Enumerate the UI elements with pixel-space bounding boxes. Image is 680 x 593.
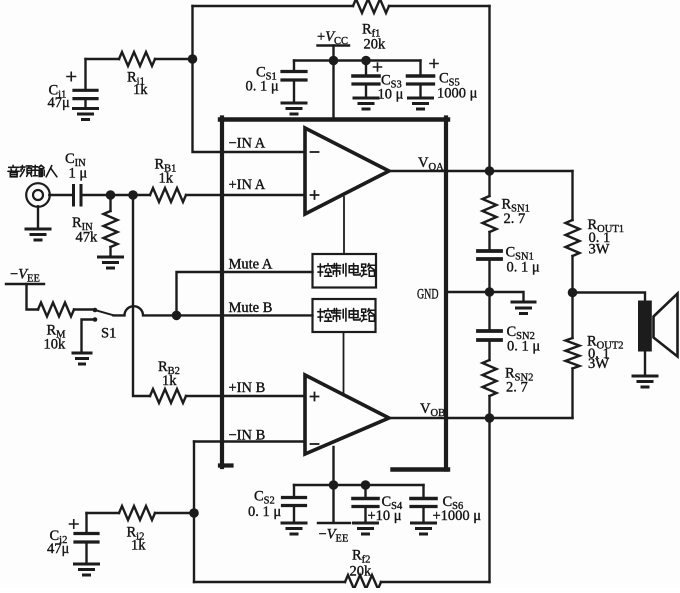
op-amp B plus sign [311, 393, 319, 401]
wire supply rail top [294, 59, 421, 61]
switch S1 contact lower [93, 317, 98, 322]
svg-text:0. 1 μ: 0. 1 μ [507, 260, 540, 276]
node junction CS4 [361, 480, 371, 490]
wire connector to ground [37, 206, 39, 228]
wire speaker to ground [644, 352, 646, 376]
svg-text:−IN B: −IN B [229, 428, 266, 444]
resistor Ri1 [119, 52, 155, 66]
ground CS6 [412, 523, 436, 534]
wire right vertical top (Rf1 to VOA) [488, 6, 490, 171]
node junction mute [172, 311, 182, 321]
capacitor CIN [74, 186, 82, 206]
svg-text:20k: 20k [364, 37, 387, 53]
svg-text:3W: 3W [588, 356, 609, 372]
svg-text:+IN B: +IN B [229, 380, 266, 396]
control box B [313, 299, 376, 332]
ground speaker [633, 376, 657, 387]
svg-text:Mute B: Mute B [229, 300, 273, 316]
svg-text:−VEE: −VEE [319, 527, 349, 545]
svg-text:+10 μ: +10 μ [368, 508, 402, 524]
speaker driver [638, 301, 652, 352]
capacitor CSN1 [478, 251, 501, 259]
wire node to ROUT2 [571, 293, 573, 339]
svg-text:S1: S1 [101, 326, 116, 342]
IC box bottom partial edge [393, 467, 449, 471]
wire RM to switch [74, 308, 93, 310]
node junction mute branch [128, 190, 138, 200]
node junction GND [485, 287, 495, 297]
ground S1 [73, 353, 91, 364]
svg-text:2. 7: 2. 7 [504, 211, 526, 227]
node junction VEE [329, 480, 339, 490]
switch S1 contact upper [93, 308, 98, 313]
resistor Ri2 [119, 506, 155, 520]
node junction CS3 [361, 56, 371, 66]
svg-text:+VCC: +VCC [317, 29, 348, 47]
node junction Ri2 [189, 508, 199, 518]
node junction Ri1 [188, 54, 198, 64]
wire top feedback A left segment [193, 5, 354, 7]
svg-text:10k: 10k [44, 337, 67, 353]
svg-text:47μ: 47μ [47, 541, 70, 557]
capacitor CS2 [293, 485, 295, 497]
wire Ri1 to junction [86, 58, 193, 60]
wire Ri2 [87, 512, 195, 514]
wire top feedback A right segment [389, 5, 490, 7]
label control circuit text A [318, 263, 375, 276]
ground CS1 [282, 103, 306, 114]
wire ROUT2 to VOB [571, 369, 573, 419]
op-amp A plus sign [311, 191, 319, 199]
switch S1 lever [96, 310, 114, 315]
wire right vertical bottom (VOB to Rf2) [488, 418, 490, 582]
power -VEE stem bottom [332, 485, 334, 523]
wire switch lower contact to ground [82, 320, 96, 353]
ground CS3 [354, 98, 378, 109]
capacitor CS6 polarized [422, 485, 424, 498]
wire supply rail bottom [294, 484, 424, 486]
wire mute A branch [177, 272, 313, 315]
wire +VCC stem to IC [332, 46, 334, 118]
wire ROUT1 to node [571, 256, 573, 293]
svg-text:1 μ: 1 μ [69, 166, 88, 182]
wire input branch vertical to RB2 [133, 195, 150, 396]
resistor ROUT2 [566, 338, 580, 369]
IC box top edge [220, 117, 448, 121]
resistor ROUT1 [566, 220, 580, 256]
svg-text:10 μ: 10 μ [378, 87, 404, 103]
ground Ci1 [74, 109, 98, 120]
resistor Rf1 [353, 0, 389, 13]
capacitor CS4 polarized [364, 485, 366, 498]
wire opamp B VEE stem [332, 447, 334, 485]
wire opamp A to control box A [343, 197, 345, 254]
node junction VOB [485, 413, 495, 423]
node junction RIN [106, 190, 116, 200]
wire -VEE to RM [27, 284, 39, 310]
wire GND to CSN2 [488, 292, 490, 329]
wire GND pin [446, 292, 524, 302]
node junction VCC [329, 56, 339, 66]
op-amp B minus sign [311, 443, 319, 445]
op-amp A minus sign [311, 151, 319, 153]
op-amp U1A [305, 128, 389, 214]
op-amp U1B [305, 375, 389, 454]
power -VEE bar bottom [318, 522, 350, 524]
input connector outer ring [26, 183, 50, 207]
IC box left edge [220, 118, 224, 468]
svg-text:−VEE: −VEE [10, 267, 40, 285]
wire mute with hop arc [114, 306, 313, 315]
label control circuit text B [318, 308, 375, 321]
wire left vertical to -IN A [193, 6, 306, 152]
node junction VOA [485, 166, 495, 176]
svg-text:0. 1 μ: 0. 1 μ [507, 339, 540, 355]
resistor RSN1 [483, 196, 497, 232]
ground CS4 [354, 523, 378, 534]
ground input connector [26, 229, 50, 240]
svg-text:−IN A: −IN A [229, 136, 266, 152]
capacitor CSN2 [478, 331, 501, 340]
IC box right edge [444, 118, 448, 470]
wire VOA junction to RSN1 [488, 171, 490, 196]
control box A [313, 254, 377, 288]
resistor Rf2 [345, 575, 381, 589]
capacitor CS5 polarized [419, 61, 421, 76]
speaker cone [654, 294, 678, 357]
wire ROUT1 drop [571, 171, 573, 220]
svg-text:VOB: VOB [420, 401, 445, 419]
wire control box B stem [343, 332, 345, 394]
wire -IN B [194, 440, 305, 442]
wire VOB [389, 417, 573, 419]
wire CSN2 to RSN2 [488, 342, 490, 360]
svg-text:2. 7: 2. 7 [506, 380, 528, 396]
svg-text:0. 1 μ: 0. 1 μ [246, 79, 279, 95]
capacitor CS1 [293, 61, 295, 72]
svg-text:3W: 3W [589, 242, 610, 258]
ground CS5 [409, 98, 433, 109]
resistor RSN2 [483, 360, 497, 396]
svg-text:0. 1 μ: 0. 1 μ [248, 504, 281, 520]
wire +IN A [186, 194, 305, 196]
wire speaker feed [573, 293, 646, 301]
svg-text:1k: 1k [131, 538, 146, 554]
wire connector to CIN [49, 194, 72, 196]
wire -IN B vertical [193, 442, 195, 583]
power +VCC bar [318, 44, 350, 46]
ground CS2 [282, 523, 306, 534]
svg-text:47k: 47k [76, 230, 99, 246]
wire bottom feedback B left [194, 581, 345, 583]
resistor RIN [109, 195, 111, 211]
svg-text:1k: 1k [159, 171, 174, 187]
power -VEE bar left [6, 283, 44, 285]
svg-text:1000 μ: 1000 μ [437, 86, 478, 102]
wire RB2 to +IN B [186, 395, 305, 397]
IC box bottom-left stub [220, 463, 232, 467]
node junction speaker [568, 288, 578, 298]
resistor RB2 [150, 389, 186, 403]
wire CIN to RB1 [83, 194, 151, 196]
resistor RM [38, 303, 74, 317]
svg-text:+1000 μ: +1000 μ [433, 508, 482, 524]
svg-text:Mute A: Mute A [229, 257, 273, 273]
wire VOA [389, 170, 573, 172]
wire RSN1 to CSN1 [488, 232, 490, 249]
resistor RB1 [150, 188, 186, 202]
label audio input text [8, 165, 57, 177]
capacitor Ci1 [84, 59, 86, 90]
capacitor Ci2 [85, 513, 87, 533]
ground RIN [99, 257, 123, 268]
input connector inner ring [33, 190, 43, 200]
wire bottom feedback B right [381, 581, 490, 583]
svg-text:20k: 20k [350, 564, 373, 580]
svg-text:GND: GND [417, 287, 439, 303]
capacitor CS3 polarized [365, 61, 367, 76]
svg-text:47μ: 47μ [48, 95, 71, 111]
ground Ci2 [75, 564, 99, 575]
svg-text:1k: 1k [133, 82, 148, 98]
ground GND pin [512, 302, 535, 314]
wire RSN2 to VOB [488, 396, 490, 418]
svg-text:+IN A: +IN A [229, 177, 266, 193]
svg-text:1k: 1k [162, 373, 177, 389]
svg-text:VOA: VOA [418, 155, 444, 173]
